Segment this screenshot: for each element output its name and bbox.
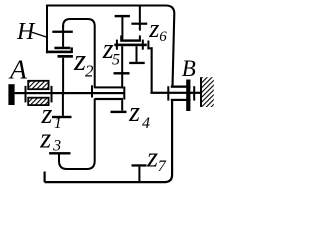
gear z6 channel bottom bar [120,39,141,41]
svg-text:z: z [128,97,140,128]
svg-text:A: A [8,54,27,85]
gear z3 rim dash [49,152,70,154]
svg-text:5: 5 [112,52,120,69]
shaft B axis [150,92,200,94]
drum gear stem [123,87,125,100]
axis hub tick [91,85,93,97]
svg-text:6: 6 [159,29,167,45]
svg-text:z: z [146,143,158,174]
carrier H frame left vertical [46,5,48,54]
connector from z5 rim bar to shaft B link [147,41,149,50]
channel left tick [120,35,122,39]
B drum top bar [171,86,191,88]
svg-text:B: B [182,56,196,81]
gear z2 stem [58,55,73,58]
planet2 axle dash [131,23,147,25]
svg-text:z: z [148,14,159,43]
leader line from H [32,32,47,37]
link bar down to shaft B [151,47,153,92]
svg-text:7: 7 [158,158,167,175]
drum sleeve top line [95,86,123,88]
drum lower bar [95,98,123,100]
inner gear T stem [136,46,138,62]
channel right tick [139,35,141,39]
bearing tick left [25,86,27,103]
planet2 stem from top frame [139,6,141,31]
inner gear T dash [129,62,145,64]
drum gear rim dash [111,111,127,113]
planet axle dash [52,31,73,33]
gear z1 rim dash [52,116,72,118]
lower shell right vertical with rounded corner to bottom line [45,101,173,182]
svg-text:1: 1 [54,115,62,132]
bearing tick right [51,86,53,103]
shaft A axis [15,92,125,94]
B thick flange bar [186,80,190,112]
wall hatching [202,77,214,107]
gear z1 stem [62,94,64,116]
svg-text:2: 2 [85,62,94,81]
gear tick on B right [193,86,195,100]
gear z6 stem [121,16,123,41]
carrier H top frame line with right rounded corner [47,6,174,87]
z5 axle dash [114,72,130,74]
lower shell left tick up [44,172,46,183]
bearing ticks on z5 rim bar [116,40,118,50]
planet gear rim bar1 [54,47,70,50]
gear z5 stem down to drum dash [121,46,123,88]
bearing hatched box lower [28,98,48,105]
svg-text:4: 4 [142,115,150,132]
gear tick on B left [167,86,169,100]
planet gear stem [62,26,64,47]
gear z3 stem and shell loop [59,99,95,170]
long mesh bar (z5 rim) [114,44,147,47]
shaft A end bar [8,84,14,105]
gear z7 stem [138,167,140,182]
gear z7 rim dash [132,164,147,166]
svg-text:z: z [39,123,51,154]
bearing hatched box upper [28,81,48,89]
wall edge at B [200,77,202,107]
gear z2 rim bar2 [46,51,73,54]
planet carrier arm (rounded U box) [63,19,95,88]
svg-text:3: 3 [52,138,61,155]
gear z6 upper dash [115,15,130,17]
B drum bottom bar [171,99,191,101]
